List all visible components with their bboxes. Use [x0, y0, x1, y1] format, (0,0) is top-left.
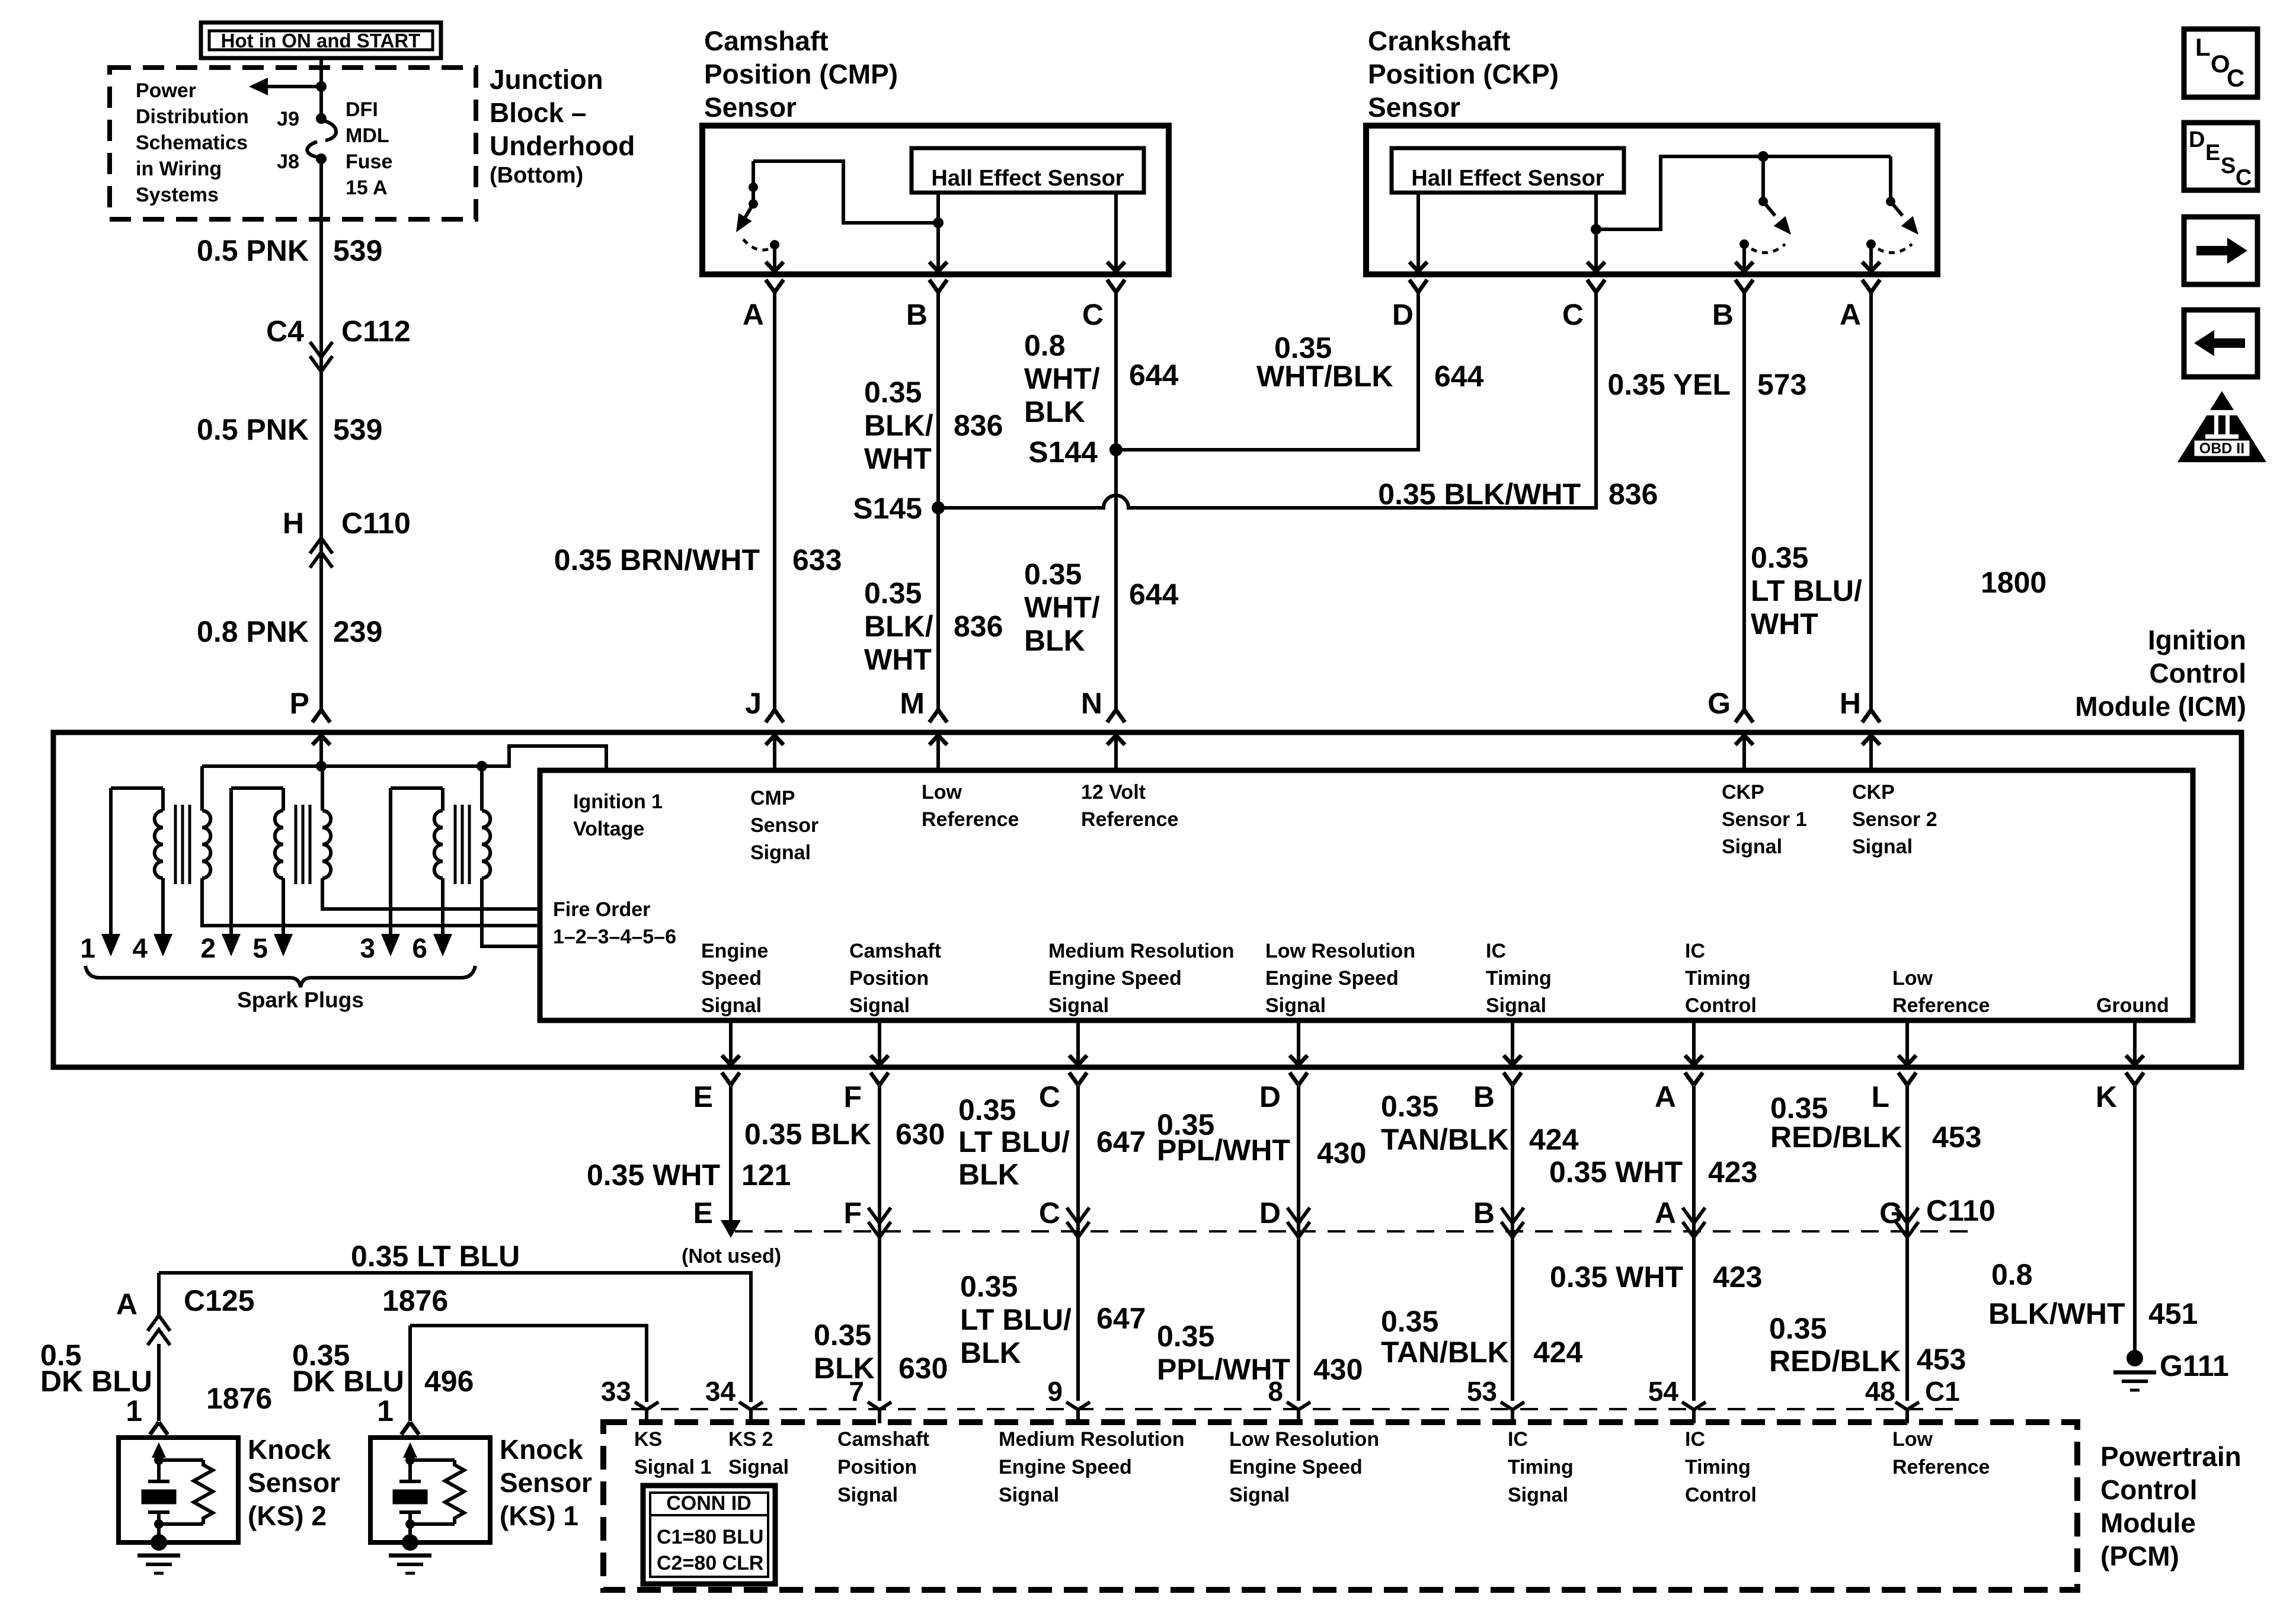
svg-text:8: 8	[1268, 1376, 1283, 1407]
svg-text:P: P	[290, 687, 309, 720]
svg-text:1: 1	[126, 1394, 142, 1427]
svg-text:S: S	[2221, 153, 2236, 178]
svg-text:Module (ICM): Module (ICM)	[2075, 691, 2246, 722]
CMP pin C wire (inside)	[1107, 193, 1125, 271]
CMP pin B wire (inside)	[929, 193, 947, 271]
CKP pin C wire (inside) with junction	[1587, 193, 1605, 271]
svg-text:S144: S144	[1028, 436, 1098, 469]
svg-text:Timing: Timing	[1486, 967, 1552, 990]
label 0.35 WHT/BLK 644 (below S144)	[1024, 558, 1179, 657]
svg-text:Crankshaft: Crankshaft	[1368, 25, 1510, 56]
svg-text:Signal: Signal	[728, 1456, 789, 1478]
node S145	[853, 492, 945, 525]
PCM label: Low Resolution Engine Speed Signal	[1229, 1428, 1379, 1506]
connector fork D at PCM	[1287, 1402, 1310, 1423]
svg-text:Engine Speed: Engine Speed	[1265, 967, 1399, 990]
svg-text:BLK: BLK	[958, 1158, 1019, 1191]
ICM label: CMP Sensor Signal	[750, 787, 818, 864]
svg-text:BLK: BLK	[960, 1336, 1021, 1369]
svg-text:OBD II: OBD II	[2199, 440, 2244, 457]
svg-text:644: 644	[1129, 578, 1179, 611]
wire A ICM to PCM	[1692, 1086, 1696, 1401]
ignition coil 2	[231, 766, 540, 937]
svg-text:423: 423	[1713, 1260, 1762, 1294]
svg-text:0.35: 0.35	[864, 577, 922, 610]
PCM label: IC Timing Control	[1685, 1428, 1757, 1506]
ICM entry arrow G	[1735, 735, 1753, 770]
ICM entry arrow P	[312, 735, 330, 766]
label 0.35 BLK/WHT 836 (above S145)	[864, 376, 1003, 475]
knock sensor box KS1	[370, 1438, 490, 1542]
svg-text:1876: 1876	[206, 1382, 272, 1415]
svg-text:C: C	[2236, 165, 2252, 190]
svg-text:Control: Control	[1685, 1484, 1757, 1506]
icon arrow right	[2184, 217, 2257, 284]
svg-text:Camshaft: Camshaft	[837, 1428, 929, 1451]
hall effect sensor box (CKP)	[1392, 148, 1624, 193]
svg-text:0.5 PNK: 0.5 PNK	[197, 234, 309, 267]
wire: KS2 to C125 to PCM pin 34, 0.35 LT BLU 1876	[159, 1273, 751, 1402]
svg-text:Block –: Block –	[490, 97, 587, 128]
svg-text:(KS) 2: (KS) 2	[248, 1500, 327, 1531]
svg-text:CONN ID: CONN ID	[666, 1492, 752, 1515]
svg-text:Distribution: Distribution	[136, 105, 249, 128]
wire B ICM to PCM	[1511, 1086, 1514, 1401]
spark plug arrow 4	[132, 933, 172, 964]
icon arrow left	[2184, 310, 2257, 377]
svg-text:C: C	[1039, 1196, 1060, 1230]
svg-text:F: F	[843, 1196, 862, 1230]
svg-text:54: 54	[1648, 1376, 1679, 1407]
svg-text:Ground: Ground	[2096, 994, 2169, 1017]
PCM label: Medium Resolution Engine Speed Signal	[999, 1428, 1185, 1506]
svg-text:573: 573	[1757, 368, 1806, 401]
svg-text:Speed: Speed	[701, 967, 762, 990]
wire KS2 vertical 0.5 DK BLU 1876	[157, 1273, 161, 1315]
wire: bus to inner box (Ignition 1 Voltage)	[482, 746, 606, 770]
KS1 ground	[389, 1524, 431, 1573]
svg-text:633: 633	[792, 543, 842, 577]
svg-text:496: 496	[424, 1365, 474, 1398]
svg-text:C112: C112	[341, 315, 411, 348]
svg-text:IC: IC	[1486, 940, 1506, 962]
wire from hot box to fuse	[319, 58, 323, 119]
CKP pickup switch 1	[1739, 151, 1797, 252]
svg-text:Hall Effect Sensor: Hall Effect Sensor	[1411, 166, 1604, 191]
KS2 internal resistor	[159, 1460, 213, 1524]
PCM label: IC Timing Signal	[1508, 1428, 1574, 1506]
svg-text:Voltage: Voltage	[573, 818, 644, 840]
svg-text:N: N	[1081, 687, 1102, 720]
svg-text:G111: G111	[2160, 1349, 2229, 1382]
svg-text:J: J	[745, 687, 762, 720]
svg-text:630: 630	[898, 1352, 948, 1385]
ICM entry arrow M	[929, 735, 947, 770]
connector C4 / C112	[266, 315, 411, 372]
svg-text:2: 2	[200, 933, 216, 964]
CMP pin A wire (inside)	[766, 245, 784, 271]
svg-text:WHT/: WHT/	[1024, 591, 1100, 624]
KS1 internal terminal arrow	[403, 1442, 417, 1465]
svg-text:WHT: WHT	[864, 442, 932, 475]
label 0.35 LT BLU/WHT (G wire lower)	[1751, 541, 1862, 641]
svg-text:Signal: Signal	[1722, 836, 1782, 858]
svg-text:33: 33	[601, 1376, 631, 1407]
svg-text:E: E	[693, 1080, 713, 1113]
svg-text:Reference: Reference	[1081, 808, 1178, 831]
svg-text:Low: Low	[1892, 967, 1933, 990]
wire: pickup to hall low ref	[753, 161, 944, 228]
svg-text:PPL/WHT: PPL/WHT	[1157, 1134, 1290, 1167]
wire KS1 vertical 0.35 DK BLU 496	[408, 1326, 412, 1421]
svg-text:Signal 1: Signal 1	[634, 1456, 711, 1478]
svg-text:C125: C125	[184, 1284, 255, 1317]
ICM label: 12 Volt Reference	[1081, 781, 1178, 831]
svg-text:F: F	[843, 1080, 862, 1113]
KS2 title	[248, 1434, 340, 1531]
svg-text:BLK/: BLK/	[864, 409, 933, 442]
PCM label: Low Reference (PCM)	[1892, 1428, 1990, 1478]
wire C ICM to PCM	[1076, 1086, 1080, 1401]
CKP pin D wire (inside)	[1409, 193, 1427, 271]
svg-text:539: 539	[333, 234, 382, 267]
svg-text:H: H	[283, 507, 304, 540]
connector fork L at PCM	[1895, 1402, 1919, 1423]
svg-text:Module: Module	[2100, 1507, 2196, 1538]
wire: CMP B 0.35 BLK/WHT 836 to ICM M (node S145)	[936, 292, 940, 710]
svg-text:Camshaft: Camshaft	[704, 25, 829, 56]
spark plug arrow 5	[252, 933, 293, 964]
svg-text:Signal: Signal	[1508, 1484, 1568, 1506]
fuse F: DFI MDL Fuse 15 A (J9/J8)	[307, 113, 336, 164]
svg-text:0.35 BLK: 0.35 BLK	[744, 1118, 871, 1151]
label F upper	[744, 1118, 945, 1151]
svg-text:0.35: 0.35	[864, 376, 922, 409]
svg-text:DFI: DFI	[346, 98, 378, 121]
wire: CKP D to S144, 0.35 WHT/BLK 644	[1116, 292, 1418, 450]
svg-text:A: A	[1655, 1196, 1676, 1230]
svg-text:Position (CMP): Position (CMP)	[704, 59, 898, 89]
svg-text:0.35: 0.35	[814, 1318, 871, 1352]
junction block dashed box	[110, 68, 476, 219]
label C upper	[958, 1093, 1146, 1191]
label B upper	[1381, 1090, 1579, 1156]
svg-text:Camshaft: Camshaft	[849, 940, 941, 962]
svg-text:MDL: MDL	[346, 124, 389, 147]
svg-text:WHT: WHT	[1751, 607, 1818, 641]
svg-text:53: 53	[1467, 1376, 1497, 1407]
label D upper	[1157, 1108, 1366, 1170]
svg-text:Signal: Signal	[1486, 994, 1546, 1017]
connector C110 chevrons on C	[1067, 1208, 1089, 1223]
svg-text:Engine Speed: Engine Speed	[1229, 1456, 1363, 1478]
connector C110 chevrons on L	[1896, 1208, 1918, 1223]
svg-text:Position: Position	[837, 1456, 917, 1478]
svg-text:Sensor 1: Sensor 1	[1722, 808, 1807, 831]
svg-text:0.35: 0.35	[1770, 1092, 1828, 1125]
node S144	[1028, 436, 1123, 469]
svg-text:A: A	[743, 298, 764, 331]
PCM title	[2100, 1441, 2241, 1571]
svg-text:Schematics: Schematics	[136, 132, 248, 154]
svg-text:Fuse: Fuse	[346, 151, 392, 173]
svg-text:C2=80 CLR: C2=80 CLR	[657, 1552, 763, 1574]
ICM label: Camshaft Position Signal	[849, 940, 941, 1017]
svg-text:Signal: Signal	[1229, 1484, 1290, 1506]
svg-text:Signal: Signal	[837, 1484, 898, 1506]
svg-text:Powertrain: Powertrain	[2100, 1441, 2241, 1472]
label 0.8 BLK/WHT 451	[1988, 1258, 2198, 1330]
svg-text:(KS) 1: (KS) 1	[500, 1500, 578, 1531]
svg-text:Signal: Signal	[1265, 994, 1326, 1017]
svg-text:LT BLU/: LT BLU/	[958, 1125, 1070, 1158]
ICM entry arrow H	[1862, 735, 1880, 770]
icon LOC	[2184, 29, 2257, 97]
svg-text:Sensor: Sensor	[750, 814, 818, 837]
svg-text:CKP: CKP	[1722, 781, 1764, 804]
CMP sensor title	[704, 25, 898, 123]
svg-text:C1: C1	[1925, 1376, 1960, 1407]
svg-text:Power: Power	[136, 79, 196, 102]
svg-text:CMP: CMP	[750, 787, 795, 809]
svg-text:Signal: Signal	[701, 994, 762, 1017]
PCM label: KS Signal 1	[634, 1428, 711, 1478]
svg-text:1–2–3–4–5–6: 1–2–3–4–5–6	[553, 926, 676, 948]
svg-text:Sensor 2: Sensor 2	[1852, 808, 1937, 831]
KS2 internal terminal arrow	[152, 1442, 166, 1465]
ICM label: Ground	[2096, 994, 2169, 1017]
svg-text:DK BLU: DK BLU	[40, 1365, 152, 1398]
CKP sensor title	[1368, 25, 1559, 123]
svg-text:0.35: 0.35	[958, 1093, 1016, 1126]
label 0.8 WHT/BLK 644 (above S144)	[1024, 329, 1179, 428]
wire: junction to pickup rail	[1596, 156, 1891, 229]
svg-text:LT BLU/: LT BLU/	[1751, 574, 1862, 607]
svg-text:Reference: Reference	[1892, 994, 1990, 1017]
svg-text:KS: KS	[634, 1428, 662, 1451]
connector C110 chevrons on D	[1287, 1208, 1310, 1223]
icon OBD II triangle	[2177, 391, 2266, 462]
svg-text:836: 836	[954, 409, 1003, 442]
PCM label: Camshaft Position Signal	[837, 1428, 929, 1506]
svg-text:Engine: Engine	[701, 940, 768, 962]
svg-text:BLK: BLK	[814, 1352, 875, 1385]
svg-text:836: 836	[1609, 478, 1658, 511]
svg-text:C: C	[1082, 298, 1104, 331]
svg-text:539: 539	[333, 413, 382, 446]
wire E (not used)	[721, 1086, 741, 1238]
svg-text:B: B	[906, 298, 928, 331]
connector fork C at PCM	[1066, 1402, 1090, 1423]
svg-text:15 A: 15 A	[346, 177, 388, 199]
ICM exit arrow E	[722, 1020, 740, 1085]
svg-text:D: D	[1259, 1196, 1281, 1230]
svg-text:KS 2: KS 2	[728, 1428, 773, 1451]
svg-text:E: E	[693, 1196, 713, 1230]
svg-text:Underhood: Underhood	[490, 130, 635, 161]
wire L ICM to PCM	[1905, 1086, 1909, 1401]
ignition coil 1	[111, 766, 540, 937]
label 0.35 DK BLU 496	[292, 1339, 474, 1398]
svg-text:TAN/BLK: TAN/BLK	[1381, 1336, 1509, 1369]
svg-text:Knock: Knock	[500, 1434, 583, 1465]
svg-text:A: A	[1655, 1080, 1676, 1113]
label D lower	[1157, 1320, 1363, 1386]
ICM label: Ignition 1 Voltage	[573, 790, 663, 840]
svg-text:Control: Control	[1685, 994, 1757, 1017]
ICM exit arrow F	[871, 1020, 888, 1085]
svg-text:K: K	[2096, 1080, 2117, 1113]
ICM label: Medium Resolution Engine Speed Signal	[1048, 940, 1235, 1017]
svg-text:0.35 WHT: 0.35 WHT	[1550, 1260, 1683, 1294]
svg-text:0.35: 0.35	[1769, 1312, 1827, 1345]
CKP pickup switch 2	[1866, 156, 1924, 252]
ICM exit arrow D	[1290, 1020, 1307, 1085]
svg-text:B: B	[1473, 1196, 1495, 1230]
ICM exit arrow C	[1069, 1020, 1087, 1085]
svg-text:48: 48	[1865, 1376, 1895, 1407]
svg-text:C1=80 BLU: C1=80 BLU	[657, 1526, 763, 1548]
wire: 0.5 PNK 539 from C112 to C110	[319, 361, 323, 538]
connector fork A at PCM	[1682, 1402, 1706, 1423]
label A upper	[1549, 1156, 1758, 1189]
wire: KS1 to PCM pin 33, 0.35 DK BLU 496	[410, 1326, 647, 1402]
svg-text:C4: C4	[266, 315, 304, 348]
svg-text:Ignition: Ignition	[2148, 625, 2246, 655]
svg-text:0.35: 0.35	[960, 1270, 1018, 1303]
CKP pin B wire (inside)	[1735, 244, 1753, 271]
wire: 0.5 PNK 539 from fuse down to C112	[319, 159, 323, 361]
ICM exit arrow K	[2126, 1020, 2144, 1085]
svg-text:J8: J8	[277, 151, 299, 173]
ICM exit arrow L	[1898, 1020, 1916, 1085]
ICM inner box	[540, 770, 2193, 1020]
svg-text:Knock: Knock	[248, 1434, 331, 1465]
ICM exit arrow A	[1685, 1020, 1703, 1085]
svg-text:(Not used): (Not used)	[682, 1245, 781, 1267]
fuse value label	[346, 98, 392, 199]
svg-text:0.35: 0.35	[1381, 1305, 1438, 1338]
svg-text:451: 451	[2148, 1297, 2198, 1330]
ICM label: Low Reference (M)	[922, 781, 1019, 831]
svg-text:in Wiring: in Wiring	[136, 158, 222, 180]
ICM label: Low Reference (L)	[1892, 967, 1990, 1017]
wire: CKP B 0.35 YEL 573 to ICM G	[1742, 292, 1746, 710]
label B lower	[1381, 1305, 1583, 1369]
svg-text:RED/BLK: RED/BLK	[1769, 1345, 1901, 1378]
svg-text:Hot in ON and START: Hot in ON and START	[221, 30, 421, 52]
svg-text:IC: IC	[1685, 1428, 1705, 1451]
ground G111	[2113, 1349, 2229, 1390]
svg-text:Ignition 1: Ignition 1	[573, 790, 663, 813]
svg-text:4: 4	[132, 933, 148, 964]
svg-text:C110: C110	[1926, 1194, 1996, 1227]
CMP sensor box	[702, 126, 1169, 274]
svg-text:Reference: Reference	[922, 808, 1019, 831]
junction block note text	[136, 79, 249, 206]
svg-text:L: L	[1871, 1080, 1889, 1113]
svg-text:C110: C110	[341, 507, 411, 540]
svg-text:0.8: 0.8	[1024, 329, 1066, 362]
ICM label: CKP Sensor 1 Signal	[1722, 781, 1807, 858]
wire: CKP C to S145, 0.35 BLK/WHT 836 (hop over CMP C)	[938, 292, 1596, 508]
svg-text:CKP: CKP	[1852, 781, 1895, 804]
svg-text:(Bottom): (Bottom)	[490, 163, 583, 188]
svg-text:D: D	[1259, 1080, 1281, 1113]
wire D ICM to PCM	[1297, 1086, 1300, 1401]
svg-text:Reference: Reference	[1892, 1456, 1990, 1478]
label F lower	[814, 1318, 948, 1385]
svg-text:0.35 LT BLU: 0.35 LT BLU	[351, 1240, 520, 1273]
connector fork pin 34	[739, 1402, 763, 1423]
svg-text:7: 7	[849, 1376, 864, 1407]
svg-text:DK BLU: DK BLU	[292, 1365, 404, 1398]
svg-text:5: 5	[252, 933, 268, 964]
ICM label: IC Timing Signal	[1486, 940, 1552, 1017]
svg-text:423: 423	[1708, 1156, 1757, 1189]
svg-text:A: A	[116, 1288, 137, 1321]
label C lower	[960, 1270, 1146, 1369]
svg-text:BLK: BLK	[1024, 395, 1085, 428]
svg-text:J9: J9	[277, 108, 299, 130]
svg-text:12 Volt: 12 Volt	[1081, 781, 1146, 804]
spark plug arrow 1	[80, 933, 120, 964]
wire K ground 0.8 BLK/WHT 451	[2133, 1086, 2137, 1352]
svg-text:Sensor: Sensor	[248, 1467, 340, 1498]
KS2 piezo element	[142, 1460, 176, 1529]
svg-text:Hall Effect Sensor: Hall Effect Sensor	[931, 166, 1124, 191]
wire: 0.8 PNK 239 down to ICM pin P	[319, 538, 323, 710]
svg-text:Medium Resolution: Medium Resolution	[999, 1428, 1185, 1451]
label L upper	[1770, 1092, 1981, 1154]
ICM title	[2075, 625, 2246, 722]
ICM label: CKP Sensor 2 Signal	[1852, 781, 1937, 858]
spark plug arrow 3	[360, 933, 400, 964]
connector fork F at PCM	[868, 1402, 891, 1423]
svg-text:453: 453	[1932, 1121, 1981, 1154]
KS1 piezo element	[393, 1460, 427, 1529]
svg-text:0.35: 0.35	[1024, 558, 1082, 591]
svg-text:Systems: Systems	[136, 184, 219, 206]
ICM label: IC Timing Control	[1685, 940, 1757, 1017]
connector A / C125	[116, 1284, 255, 1345]
svg-text:Sensor: Sensor	[704, 92, 797, 123]
wire: CMP A 0.35 BRN/WHT 633 to ICM J	[773, 292, 776, 710]
svg-text:TAN/BLK: TAN/BLK	[1381, 1123, 1509, 1156]
svg-text:836: 836	[954, 610, 1003, 643]
svg-text:IC: IC	[1508, 1428, 1528, 1451]
svg-text:BLK/: BLK/	[864, 610, 933, 643]
svg-text:0.35: 0.35	[1751, 541, 1808, 574]
svg-text:Position: Position	[849, 967, 929, 990]
svg-text:0.35 WHT: 0.35 WHT	[587, 1158, 720, 1192]
svg-text:0.8: 0.8	[1991, 1258, 2033, 1291]
ICM label: Engine Speed Signal	[701, 940, 768, 1017]
spark plugs brace	[85, 966, 475, 987]
wire: CMP C 0.8 WHT/BLK 644 to ICM N (node S144)	[1114, 292, 1118, 710]
fire order label	[553, 898, 676, 948]
knock sensor box KS2	[119, 1438, 238, 1542]
svg-text:121: 121	[741, 1158, 791, 1192]
svg-text:Low: Low	[922, 781, 962, 804]
connector C110 chevrons on B	[1501, 1208, 1524, 1223]
svg-text:1800: 1800	[1981, 566, 2046, 599]
svg-text:Junction: Junction	[490, 64, 603, 95]
svg-text:1: 1	[377, 1394, 394, 1427]
label 0.35 WHT/BLK 644 (D wire)	[1256, 331, 1484, 393]
svg-text:(PCM): (PCM)	[2100, 1541, 2179, 1571]
svg-text:E: E	[2205, 140, 2220, 165]
